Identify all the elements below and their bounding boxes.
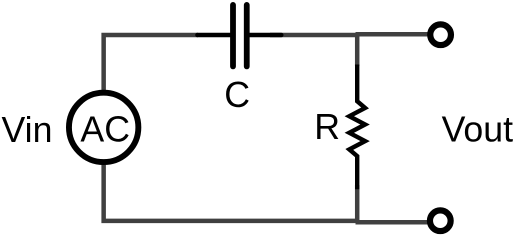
svg-text:Vin: Vin: [2, 110, 53, 150]
svg-text:R: R: [314, 107, 340, 147]
svg-text:C: C: [224, 75, 250, 115]
svg-text:AC: AC: [80, 110, 130, 150]
svg-text:Vout: Vout: [442, 109, 513, 149]
